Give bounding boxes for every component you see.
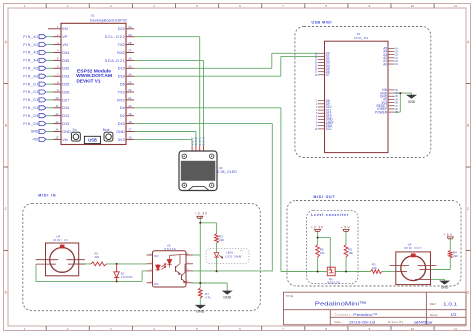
svg-text:D19: D19	[118, 67, 125, 71]
svg-text:PIN_A4: PIN_A4	[23, 59, 38, 63]
svg-text:+5V: +5V	[444, 233, 453, 237]
svg-text:D2: D2	[120, 114, 125, 118]
svg-text:13: 13	[55, 120, 59, 124]
svg-text:GND: GND	[441, 286, 449, 290]
svg-text:15: 15	[55, 136, 59, 140]
svg-text:MIDI IN: MIDI IN	[54, 238, 68, 242]
svg-text:D18: D18	[118, 75, 125, 79]
svg-text:WWW.DOIT.AM: WWW.DOIT.AM	[76, 73, 112, 78]
svg-text:En: En	[73, 128, 77, 132]
svg-text:20: 20	[128, 104, 132, 108]
svg-text:1.0.1: 1.0.1	[443, 302, 458, 307]
svg-text:GND: GND	[62, 130, 71, 134]
svg-text:Pedalino™: Pedalino™	[353, 312, 377, 317]
svg-text:alf45tar: alf45tar	[414, 319, 434, 324]
svg-text:Vin: Vin	[62, 138, 67, 142]
svg-text:Sheet:: Sheet:	[430, 313, 439, 317]
svg-text:10k: 10k	[320, 251, 325, 255]
svg-text:11: 11	[56, 104, 59, 108]
svg-text:MIDI OUT: MIDI OUT	[314, 195, 336, 199]
svg-text:D34: D34	[62, 51, 69, 55]
svg-text:SCL-D22: SCL-D22	[105, 35, 125, 39]
svg-text:25: 25	[128, 65, 132, 69]
svg-text:Level converter: Level converter	[311, 213, 349, 217]
svg-text:N/C: N/C	[154, 254, 159, 258]
svg-text:PIN_D2: PIN_D2	[23, 90, 38, 94]
svg-text:21: 21	[128, 96, 132, 100]
svg-text:GND: GND	[196, 309, 204, 313]
svg-text:6N138: 6N138	[165, 247, 176, 251]
svg-text:26: 26	[128, 57, 132, 61]
svg-text:UNO_R3: UNO_R3	[354, 36, 368, 40]
svg-text:D23: D23	[118, 27, 125, 31]
svg-text:D35: D35	[62, 59, 69, 63]
svg-text:A0: A0	[383, 62, 387, 66]
svg-text:DEVKIT V1: DEVKIT V1	[77, 79, 101, 84]
svg-text:Company:: Company:	[335, 313, 352, 317]
svg-text:B: B	[5, 124, 7, 128]
svg-text:2019-09-18: 2019-09-18	[349, 319, 376, 324]
svg-text:B: B	[467, 124, 469, 128]
svg-text:PIN_D5: PIN_D5	[23, 114, 38, 118]
svg-text:PIN_A1: PIN_A1	[23, 35, 38, 39]
svg-text:PedalinoMini™: PedalinoMini™	[315, 302, 367, 308]
svg-text:GND: GND	[116, 130, 125, 134]
svg-text:3V3: 3V3	[118, 138, 125, 142]
svg-text:+5V: +5V	[32, 138, 39, 142]
svg-text:D5: D5	[120, 83, 125, 87]
svg-text:23: 23	[128, 80, 132, 84]
svg-text:10: 10	[411, 4, 415, 8]
svg-text:11: 11	[454, 4, 457, 8]
svg-text:D25: D25	[62, 83, 69, 87]
svg-text:TX2: TX2	[118, 90, 125, 94]
svg-text:D26: D26	[62, 90, 69, 94]
svg-text:220: 220	[219, 238, 224, 242]
svg-text:RX2: RX2	[117, 98, 124, 102]
svg-text:SDA: SDA	[202, 137, 206, 146]
svg-text:VP: VP	[62, 35, 68, 39]
svg-text:18: 18	[128, 120, 132, 124]
svg-text:POWER: POWER	[375, 110, 388, 114]
svg-text:GND: GND	[31, 130, 39, 134]
svg-text:TX0: TX0	[118, 43, 125, 47]
svg-text:+3.3V: +3.3V	[311, 225, 324, 229]
svg-text:220: 220	[372, 266, 377, 270]
svg-text:10: 10	[411, 327, 415, 331]
svg-text:19: 19	[128, 112, 132, 116]
svg-text:24: 24	[128, 72, 132, 76]
svg-text:D13: D13	[62, 122, 69, 126]
svg-text:D12: D12	[62, 114, 69, 118]
svg-text:14: 14	[55, 128, 59, 132]
svg-text:MIDI IN: MIDI IN	[38, 193, 56, 197]
svg-text:D33: D33	[62, 75, 69, 79]
svg-text:BSS138: BSS138	[328, 280, 340, 284]
svg-text:PIN_A2: PIN_A2	[23, 43, 38, 47]
svg-text:MIDI OUT: MIDI OUT	[405, 246, 422, 250]
svg-text:0.96_OLED: 0.96_OLED	[217, 170, 237, 174]
svg-text:D7: D7	[326, 73, 330, 77]
svg-text:PIN_A5: PIN_A5	[23, 67, 38, 71]
svg-text:LED 3MM: LED 3MM	[225, 254, 242, 258]
svg-text:+3.3V: +3.3V	[195, 211, 208, 215]
svg-text:DevelopBoard-ESP32: DevelopBoard-ESP32	[90, 18, 127, 22]
svg-text:REV:: REV:	[430, 302, 437, 306]
svg-text:10k: 10k	[348, 251, 353, 255]
svg-text:220: 220	[453, 254, 458, 258]
svg-text:TITLE:: TITLE:	[286, 294, 295, 298]
svg-text:+5V: +5V	[341, 225, 350, 229]
svg-text:Boot: Boot	[103, 128, 110, 132]
svg-text:30: 30	[128, 25, 132, 29]
svg-text:27: 27	[128, 49, 132, 53]
svg-text:PIN_D3: PIN_D3	[23, 98, 38, 102]
svg-text:~~: ~~	[240, 249, 244, 252]
svg-text:D14: D14	[62, 106, 69, 110]
svg-text:VN: VN	[62, 43, 68, 47]
svg-text:D32: D32	[62, 67, 69, 71]
svg-text:EN: EN	[62, 27, 68, 31]
svg-text:USB: USB	[88, 138, 97, 143]
svg-text:Drawn By:: Drawn By:	[388, 320, 405, 324]
svg-text:4.7k: 4.7k	[205, 296, 211, 300]
svg-text:28: 28	[128, 41, 132, 45]
svg-text:SCL: SCL	[326, 127, 332, 131]
svg-text:RX0: RX0	[117, 51, 124, 55]
svg-text:D15: D15	[118, 122, 125, 126]
svg-text:D4: D4	[120, 106, 125, 110]
svg-text:29: 29	[128, 33, 132, 37]
svg-text:1N4001: 1N4001	[121, 275, 133, 279]
svg-text:D27: D27	[62, 98, 69, 102]
svg-text:10: 10	[55, 96, 59, 100]
svg-text:U1: U1	[91, 14, 95, 18]
svg-text:PIN_A6: PIN_A6	[23, 74, 38, 78]
svg-text:PIN_D1: PIN_D1	[23, 82, 38, 86]
svg-text:17: 17	[128, 128, 132, 132]
svg-text:SDA-D21: SDA-D21	[105, 59, 125, 63]
svg-text:22: 22	[128, 88, 132, 92]
svg-text:Date:: Date:	[335, 320, 342, 324]
svg-text:GND: GND	[223, 295, 231, 299]
svg-text:N/C: N/C	[154, 282, 159, 286]
svg-text:PIN_D6: PIN_D6	[23, 122, 38, 126]
svg-text:1/2: 1/2	[451, 312, 457, 317]
svg-text:PIN_A3: PIN_A3	[23, 51, 38, 55]
svg-text:16: 16	[128, 136, 132, 140]
svg-text:11: 11	[454, 327, 457, 331]
svg-text:GND: GND	[408, 100, 416, 104]
svg-text:12: 12	[55, 112, 59, 116]
svg-text:PIN_D4: PIN_D4	[23, 106, 38, 110]
svg-text:USB MIDI: USB MIDI	[312, 21, 332, 25]
svg-text:220: 220	[95, 255, 100, 259]
